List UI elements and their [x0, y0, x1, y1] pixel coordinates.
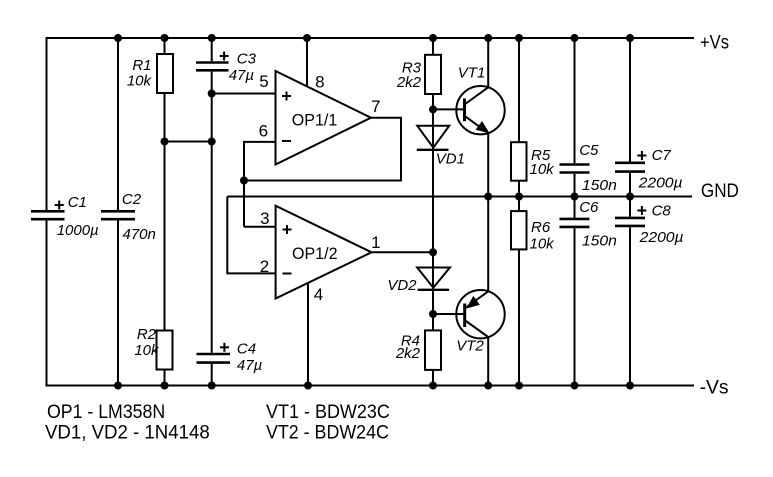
node GND rail junction dots — [484, 193, 634, 201]
svg-text:8: 8 — [315, 73, 324, 92]
node pin5 junction — [208, 90, 216, 98]
svg-text:10k: 10k — [134, 342, 160, 359]
svg-text:C2: C2 — [122, 191, 142, 208]
svg-text:R2: R2 — [137, 326, 157, 343]
svg-text:C5: C5 — [579, 142, 599, 159]
svg-text:10k: 10k — [530, 161, 556, 178]
wire VT2 collector — [487, 337, 489, 386]
capacitor C1 — [31, 211, 65, 219]
svg-text:470n: 470n — [123, 226, 156, 243]
capacitor C4 — [197, 354, 231, 363]
svg-text:VD1: VD1 — [436, 151, 465, 168]
node -Vs rail junction dots — [114, 382, 634, 390]
resistor R5 — [511, 142, 527, 181]
wire C3 C4 column — [211, 38, 213, 61]
svg-text:2200µ: 2200µ — [639, 229, 684, 246]
svg-text:C3: C3 — [237, 51, 257, 68]
svg-text:C7: C7 — [652, 147, 672, 164]
diode VD2 — [417, 268, 450, 288]
svg-text:4: 4 — [314, 285, 323, 304]
wire R1-R2 junction to C3-C4 column — [165, 141, 212, 143]
node R1-R2 junction — [161, 138, 169, 146]
wire VT2 emitter — [487, 197, 489, 292]
svg-text:VD1, VD2 - 1N4148: VD1, VD2 - 1N4148 — [45, 422, 210, 443]
wire C8 column — [629, 197, 631, 217]
resistor R1 — [157, 54, 173, 93]
capacitor C2 — [101, 211, 135, 219]
wire C5 column — [574, 38, 576, 163]
svg-text:R1: R1 — [132, 57, 151, 74]
transistor Q1 VT1 — [456, 86, 504, 134]
wire VT1 base — [433, 108, 464, 110]
resistor R3 — [425, 55, 441, 94]
svg-text:5: 5 — [259, 72, 268, 91]
node OP1/2 output junction — [429, 248, 437, 256]
wire R1 R2 column — [164, 38, 166, 386]
svg-text:10k: 10k — [127, 73, 153, 90]
wire pin7 feedback — [244, 118, 401, 181]
node VT1 base junction — [429, 105, 437, 113]
node C3-C4 mid junction — [208, 138, 216, 146]
wire pin2 — [227, 197, 275, 274]
wire R5 R6 column — [518, 38, 520, 386]
svg-text:47µ: 47µ — [229, 67, 254, 84]
svg-text:2: 2 — [260, 257, 269, 276]
wire pin1 output — [372, 251, 434, 253]
svg-text:2k2: 2k2 — [396, 74, 422, 91]
svg-text:7: 7 — [371, 97, 380, 116]
op-amp U2 OP1/2 — [276, 206, 372, 299]
capacitor C5 — [560, 165, 590, 173]
svg-text:2k2: 2k2 — [395, 345, 421, 362]
svg-text:C6: C6 — [579, 199, 599, 216]
op-amp U1 OP1/1 — [276, 71, 372, 165]
svg-text:10k: 10k — [530, 236, 556, 253]
capacitor C7 — [615, 163, 645, 172]
wire GND rail — [227, 196, 692, 198]
svg-text:OP1 - LM358N: OP1 - LM358N — [47, 402, 165, 423]
wire pin3 — [244, 226, 276, 228]
svg-text:C1: C1 — [68, 194, 87, 211]
svg-text:150n: 150n — [582, 233, 617, 250]
node +Vs rail junction dots — [114, 34, 634, 42]
wire R3 VD1 VD2 R4 column — [432, 38, 434, 386]
svg-text:OP1/2: OP1/2 — [292, 244, 338, 263]
wire C6 column — [574, 197, 576, 218]
wire -Vs rail — [46, 385, 694, 387]
wire VT2 base — [433, 313, 464, 315]
diode VD1 — [417, 126, 449, 148]
svg-text:VD2: VD2 — [387, 277, 417, 294]
wire C2 column — [117, 38, 119, 210]
svg-text:3: 3 — [260, 209, 269, 228]
wire VT1 emitter — [487, 133, 489, 196]
svg-text:C8: C8 — [652, 203, 672, 220]
svg-text:+Vs: +Vs — [700, 33, 729, 54]
svg-text:-Vs: -Vs — [700, 378, 729, 399]
svg-text:6: 6 — [259, 122, 268, 141]
node VT2 base junction — [429, 310, 437, 318]
wire pin4 — [307, 283, 309, 386]
svg-text:47µ: 47µ — [237, 357, 262, 374]
wire pin6 — [244, 142, 276, 227]
wire left edge column (C1) — [46, 37, 48, 210]
capacitor C8 — [615, 218, 645, 226]
capacitor C6 — [560, 219, 590, 227]
svg-text:VT2 - BDW24C: VT2 - BDW24C — [266, 422, 389, 443]
resistor R2 — [157, 331, 173, 370]
resistor R4 — [425, 330, 441, 370]
svg-text:2200µ: 2200µ — [638, 175, 683, 192]
transistor Q2 VT2 — [456, 290, 504, 338]
svg-text:OP1/1: OP1/1 — [292, 110, 338, 129]
svg-text:VT1: VT1 — [458, 65, 486, 82]
svg-text:GND: GND — [701, 181, 739, 202]
resistor R6 — [511, 211, 527, 249]
svg-text:1: 1 — [371, 233, 380, 252]
node feedback junction — [240, 177, 248, 185]
capacitor C3 — [196, 63, 229, 71]
svg-text:VT1 - BDW23C: VT1 - BDW23C — [266, 402, 390, 423]
wire +Vs rail — [46, 37, 694, 39]
wire pin8 — [306, 38, 308, 87]
svg-text:VT2: VT2 — [456, 338, 484, 355]
svg-text:1000µ: 1000µ — [57, 222, 99, 239]
wire C7 column — [629, 38, 631, 162]
svg-text:C4: C4 — [237, 341, 256, 358]
wire VT1 collector — [487, 38, 489, 87]
svg-text:R6: R6 — [531, 219, 551, 236]
svg-text:150n: 150n — [582, 177, 617, 194]
wire pin5 — [212, 93, 276, 95]
